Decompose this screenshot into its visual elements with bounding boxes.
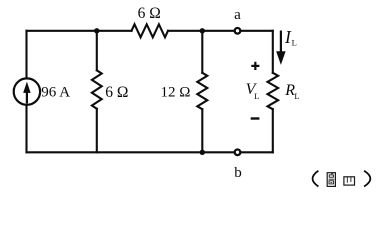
resistor 12 ohm [197,73,207,109]
terminal b open circle [235,150,241,156]
svg-text:L: L [292,37,297,47]
wire 12 ohm branch bottom [201,109,203,152]
wire RL branch bottom [272,109,274,152]
wire top left segment [27,30,132,32]
caption left parenthesis [313,171,319,187]
svg-text:6 Ω: 6 Ω [138,5,161,22]
svg-text:L: L [294,91,299,101]
current source 96 A circle [14,78,40,104]
resistor 6 ohm vertical [92,70,102,109]
svg-text:12 Ω: 12 Ω [161,85,191,101]
minus sign [251,117,260,119]
caption character Tu (figure) [327,173,335,187]
wire 6 ohm branch top [96,31,98,71]
current source arrow [24,83,31,104]
wire 12 ohm branch top [201,31,203,73]
resistor RL [268,73,279,109]
wire bottom [27,151,273,153]
plus sign [251,62,259,70]
caption right parenthesis [364,171,370,187]
junction node at 12 ohm bottom [200,150,205,155]
wire RL branch top [272,31,274,73]
junction node at 12 ohm top [200,28,205,33]
svg-text:a: a [234,7,241,23]
terminal a open circle [235,28,241,34]
svg-text:L: L [254,91,259,101]
resistor 6 ohm horizontal [132,24,169,37]
wire top middle segment (between 6 ohm resistor and terminal a) [168,30,273,32]
svg-text:96 A: 96 A [41,85,70,101]
svg-text:6 Ω: 6 Ω [105,84,128,101]
wire 6 ohm branch bottom [96,109,98,153]
svg-text:b: b [234,165,242,181]
wire left vertical [25,31,27,153]
caption character Si (four) [344,177,355,185]
current IL arrow [277,31,286,65]
junction node at 6 ohm top [94,28,99,33]
